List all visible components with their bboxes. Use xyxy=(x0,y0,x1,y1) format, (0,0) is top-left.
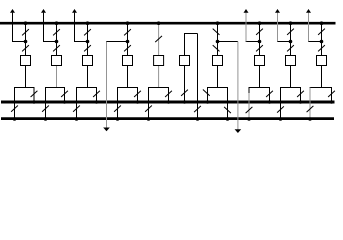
bay F5 bus1 dot xyxy=(167,100,171,104)
bay F3 line wire vertical xyxy=(74,13,76,42)
bay F8 line branch wire xyxy=(277,41,291,43)
bay F7 bypass disconnector (slash) xyxy=(256,29,263,35)
bay F4 line wire vertical (gray) xyxy=(106,42,108,129)
bay F6 tap dot on bypass bus xyxy=(216,21,220,25)
bay F7 bus2 selector leg lower (gray) xyxy=(248,93,250,119)
bay F1 bus2 selector leg xyxy=(14,88,16,119)
bay F1 bus2 selector slash xyxy=(11,105,18,111)
bay F5 disconnector DS (slash) xyxy=(155,36,162,42)
bay F2 tap dot on bypass bus xyxy=(55,21,59,25)
bay F3 tap dot on bypass bus xyxy=(86,21,90,25)
bay F7 tap dot on bypass bus xyxy=(258,21,262,25)
bay F8 outgoing line arrow xyxy=(275,9,280,13)
bay F6 bypass disconnector (slash) xyxy=(213,29,220,35)
bay F1 bus2 dot xyxy=(13,117,17,121)
bay F4 bus1 selector slash xyxy=(134,91,141,97)
bay F8 circuit breaker box xyxy=(286,56,296,66)
bay F2 bypass disconnector (slash) xyxy=(53,29,60,35)
bay F4 bus2 selector leg xyxy=(117,88,119,119)
bus coupler loop top wire xyxy=(184,33,198,35)
bay F4 bus1 dot xyxy=(136,100,140,104)
bay F2 bus1 selector slash xyxy=(61,91,68,97)
bay F4 bus-selector top wire xyxy=(117,87,138,89)
bay F1 bus1 selector leg xyxy=(33,88,35,103)
bay F2 line branch wire xyxy=(43,41,57,43)
bay F8 tap dot on bypass bus xyxy=(289,21,293,25)
bay F9 bus-selector top wire xyxy=(310,87,333,89)
bus coupler bus2 dot xyxy=(196,117,200,121)
bay F5 bus1 selector leg xyxy=(168,88,170,103)
bay F1 bus1 dot xyxy=(32,100,36,104)
bay F6 circuit breaker box xyxy=(213,56,223,66)
bay F7 bus2 selector slash xyxy=(246,107,253,113)
top bus (bypass busbar) xyxy=(0,22,336,25)
bay F9 bypass disconnector (slash) xyxy=(318,29,325,35)
bay F3 bus1 selector slash xyxy=(93,91,100,97)
bay F7 bus2 dot xyxy=(247,117,251,121)
bay F2 bus-selector top wire xyxy=(45,87,65,89)
bay F3 feeder wire xyxy=(87,23,89,87)
bay F7 line junction dot xyxy=(258,40,262,44)
bay F2 circuit breaker box xyxy=(52,56,62,66)
bay F3 bus2 selector slash xyxy=(73,105,80,111)
bay F8 bus1 dot xyxy=(299,100,303,104)
bay F7 feeder wire xyxy=(259,23,261,87)
bay F3 bus-selector top wire xyxy=(76,87,97,89)
bay F8 line wire vertical xyxy=(277,13,279,42)
bay F7 outgoing line arrow xyxy=(244,9,249,13)
bay F2 bus2 selector leg xyxy=(45,88,47,119)
bay F9 line disconnector (slash) xyxy=(318,45,325,51)
bay F5 bus2 selector leg xyxy=(148,88,150,119)
bay F9 bus2 dot xyxy=(308,117,312,121)
bay F3 line disconnector (slash) xyxy=(84,45,91,51)
bay F9 line branch wire xyxy=(308,41,322,43)
bay F9 bus1 selector slash xyxy=(328,91,335,97)
bay F8 bus2 selector slash xyxy=(277,106,284,112)
bay F3 line junction dot xyxy=(86,40,90,44)
bus coupler breaker box xyxy=(180,56,190,66)
bay F6 feeder wire xyxy=(217,23,219,87)
bay F4 line junction dot xyxy=(126,40,130,44)
bay F5 bus1 selector slash xyxy=(165,91,172,97)
bay F4 bus2 dot xyxy=(116,117,120,121)
bay F4 bus1 selector leg xyxy=(137,88,139,103)
bay F3 bus1 selector leg xyxy=(96,88,98,103)
bay F6 bus-selector top wire xyxy=(207,87,228,89)
bay F3 bypass disconnector (slash) xyxy=(84,29,91,35)
bay F9 tap dot on bypass bus xyxy=(320,21,324,25)
bay F1 line disconnector (slash) xyxy=(22,45,29,51)
bay F5 circuit breaker box xyxy=(154,56,164,66)
bay F7 bus1 selector slash xyxy=(266,91,273,97)
bay F9 outgoing line arrow xyxy=(306,9,311,13)
bay F2 bus1 selector leg xyxy=(64,88,66,103)
bay F8 line disconnector (slash) xyxy=(287,45,294,51)
bay F7 bus1 selector leg xyxy=(269,88,271,103)
bus coupler bus1 slash xyxy=(181,90,188,96)
bay F7 bus2 selector leg upper xyxy=(248,88,250,94)
bay F6 line junction dot xyxy=(216,40,220,44)
bay F3 circuit breaker box xyxy=(83,56,93,66)
bay F8 bus2 dot xyxy=(279,117,283,121)
bay F2 outgoing line arrow xyxy=(41,9,46,13)
bay F2 feeder wire lower (gray) xyxy=(56,64,58,88)
bay F3 bus2 dot xyxy=(75,117,79,121)
bay F2 line junction dot xyxy=(55,40,59,44)
bay F9 circuit breaker box xyxy=(317,56,327,66)
bus coupler left riser xyxy=(184,34,186,103)
bay F9 bus2 selector slash xyxy=(307,106,314,112)
bay F6 bus1 dot xyxy=(206,100,210,104)
bay F1 bus1 selector slash xyxy=(31,91,38,97)
bay F9 bus1 dot xyxy=(330,100,334,104)
bay F1 outgoing line arrow xyxy=(10,9,15,13)
main busbar 1 xyxy=(1,101,335,104)
bay F8 bus1 selector leg xyxy=(300,88,302,103)
bay F2 line disconnector (slash) xyxy=(53,45,60,51)
bay F6 bus2 selector leg xyxy=(227,88,229,119)
bus coupler right riser xyxy=(197,34,199,119)
bay F5 bus-selector top wire xyxy=(148,87,169,89)
bay F8 bus2 selector leg xyxy=(280,88,282,119)
bay F9 feeder wire xyxy=(321,23,323,87)
bay F3 outgoing line arrow xyxy=(72,9,77,13)
bay F4 bus2 selector slash xyxy=(114,105,121,111)
bay F2 line wire vertical xyxy=(43,13,45,42)
bay F5 feeder wire xyxy=(158,23,160,87)
bay F8 bus1 selector slash xyxy=(297,91,304,97)
bay F9 line wire vertical xyxy=(308,13,310,42)
bay F5 bus2 dot xyxy=(147,117,151,121)
bay F7 line disconnector (slash) xyxy=(256,45,263,51)
bay F8 bus-selector top wire xyxy=(280,87,301,89)
bay F4 feeder wire xyxy=(127,23,129,87)
bay F2 bus2 dot xyxy=(44,117,48,121)
bay F6 outgoing line arrow (down) xyxy=(235,129,242,133)
bay F4 tap dot on bypass bus xyxy=(126,21,130,25)
bay F9 bus2 selector leg (gray) xyxy=(309,88,311,119)
bay F6 line wire vertical (gray) xyxy=(237,42,239,130)
bay F1 bus-selector top wire xyxy=(14,87,35,89)
bay F3 bus1 dot xyxy=(95,100,99,104)
bay F1 line wire vertical xyxy=(12,13,14,42)
bay F1 bypass disconnector (slash) xyxy=(22,29,29,35)
bay F9 line junction dot xyxy=(320,40,324,44)
bay F6 bus2 selector slash xyxy=(224,107,231,113)
bay F3 bus2 selector leg xyxy=(76,88,78,119)
bay F1 circuit breaker box xyxy=(21,56,31,66)
bay F3 line branch wire xyxy=(74,41,88,43)
bay F6 bus1 selector leg xyxy=(207,88,209,103)
bay F6 bus1 selector slash xyxy=(203,89,210,95)
bay F4 bypass disconnector (slash) xyxy=(124,29,131,35)
bay F1 line branch wire xyxy=(12,41,26,43)
bus coupler bus2 slash xyxy=(194,106,201,112)
bay F7 circuit breaker box xyxy=(255,56,265,66)
bus coupler bus1 dot xyxy=(183,100,187,104)
bay F5 tap dot on bypass bus xyxy=(157,21,161,25)
bay F4 line disconnector (slash) xyxy=(124,45,131,51)
bay F1 feeder wire xyxy=(25,23,27,87)
bay F2 bus1 dot xyxy=(63,100,67,104)
bay F7 bus1 dot xyxy=(268,100,272,104)
main busbar 2 xyxy=(1,117,334,120)
bay F7 line branch wire xyxy=(246,41,260,43)
bay F4 outgoing line arrow (down) xyxy=(103,128,110,132)
bay F4 circuit breaker box xyxy=(123,56,133,66)
bay F2 feeder wire upper xyxy=(56,23,58,57)
bay F7 line wire vertical xyxy=(245,13,247,42)
bay F6 bus2 dot xyxy=(226,117,230,121)
bay F4 line branch wire xyxy=(106,41,128,43)
bay F1 tap dot on bypass bus xyxy=(24,21,28,25)
bay F8 line junction dot xyxy=(289,40,293,44)
bay F8 bypass disconnector (slash) xyxy=(287,29,294,35)
bay F9 bus1 selector leg xyxy=(331,88,333,103)
bay F8 feeder wire xyxy=(290,23,292,87)
bay F1 line junction dot xyxy=(24,40,28,44)
bay F2 bus2 selector slash xyxy=(42,105,49,111)
bay F7 bus-selector top wire xyxy=(249,87,271,89)
bay F5 bus2 selector slash xyxy=(145,105,152,111)
bay F6 line disconnector (slash) xyxy=(213,45,220,51)
bay F6 line branch wire xyxy=(217,41,238,43)
